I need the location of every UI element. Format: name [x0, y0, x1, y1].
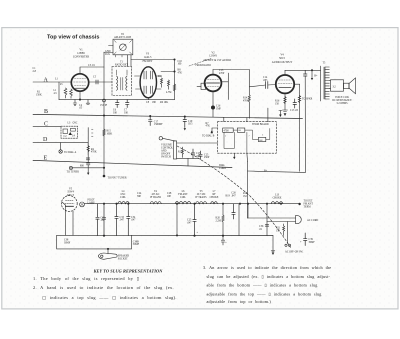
loop antenna coil: [120, 44, 127, 51]
resistor R14: [248, 87, 250, 119]
tube V4 electrodes: [278, 80, 292, 87]
speaker socket: [98, 253, 117, 259]
volume control shaft: [159, 137, 162, 140]
wire row D: [33, 142, 88, 144]
junction: [127, 203, 129, 205]
svg-text:TO DIAL B: TO DIAL B: [202, 135, 215, 138]
tube V3 electrodes: [144, 71, 153, 94]
loop lead down 2: [130, 55, 132, 67]
resistor R13 label: [178, 151, 183, 154]
capacitor C17 label: [290, 109, 299, 112]
speaker cone: [349, 78, 356, 94]
coil T3: [196, 202, 207, 204]
ground stub: [86, 100, 90, 105]
tube V3 label: [142, 53, 152, 63]
svg-text:.047: .047: [187, 221, 192, 224]
speaker socket lead: [107, 249, 109, 254]
wire loop right side: [130, 235, 132, 249]
coil L6: [175, 201, 191, 203]
wire dial to bus: [73, 167, 105, 169]
V5 cathode drop: [72, 211, 74, 235]
junction: [184, 116, 186, 118]
svg-text:50C5: 50C5: [279, 57, 286, 60]
tube V1 label: [73, 48, 90, 58]
svg-text:TO PIN 7 TUNER: TO PIN 7 TUNER: [108, 177, 127, 180]
tuner part 1: [223, 128, 234, 132]
capacitor C28 label: [167, 192, 172, 198]
svg-text:C15 .05: C15 .05: [290, 109, 299, 112]
loop terminals: [114, 41, 131, 54]
capacitor C26 label: [231, 192, 236, 198]
resistor R2: [64, 88, 67, 98]
board feed 1: [223, 117, 225, 121]
svg-text:AC OFF-ON SW.: AC OFF-ON SW.: [285, 250, 304, 253]
wire pot to tuner board: [177, 142, 218, 144]
tube V2 electrodes: [207, 80, 220, 87]
svg-text:CHOKE: CHOKE: [273, 197, 282, 200]
svg-text:30MF: 30MF: [309, 241, 316, 244]
wire transformer to speaker bottom: [329, 88, 330, 90]
resistor R20: [222, 204, 224, 236]
svg-text:470K: 470K: [91, 151, 97, 154]
resistor R12 label: [166, 91, 172, 94]
capacitor C3 label: [88, 64, 96, 67]
resistor R6 label: [160, 101, 168, 104]
resistor R17: [298, 96, 300, 103]
pin numbers: [225, 135, 263, 138]
svg-text:KEY TO SLUG REPRESENTATION: KEY TO SLUG REPRESENTATION: [93, 268, 164, 273]
capacitor C33: [115, 204, 118, 236]
wire lower rail: [57, 234, 273, 236]
tuner part 3: [258, 137, 265, 141]
wire heater rail: [85, 203, 300, 205]
capacitor C15: [304, 70, 308, 76]
tuning slash: [120, 44, 126, 50]
oscillator coil label: [68, 122, 78, 125]
svg-text:A: A: [44, 77, 49, 83]
resistor R15: [103, 129, 105, 136]
coil T4: [150, 202, 161, 204]
capacitor C25: [193, 204, 196, 236]
junction: [149, 115, 151, 117]
ground label: [105, 50, 111, 56]
loop lead down 1: [127, 55, 129, 67]
wire coupling drop: [248, 70, 250, 87]
capacitor C32: [102, 204, 105, 236]
junction: [115, 203, 117, 205]
svg-text:TERM: TERM: [304, 206, 312, 209]
wire cap to V4 grid: [268, 84, 276, 87]
tube V4: [276, 75, 294, 93]
wire row B bus: [33, 114, 303, 118]
terminal ring: [103, 99, 106, 102]
tube V2: [205, 75, 222, 92]
ground left of box: [211, 128, 218, 134]
loop bottom pins: [115, 55, 122, 57]
tube V4 label: [272, 54, 293, 64]
electrolytic C16 label: [216, 105, 222, 111]
svg-text:AM DET & 1ST AUDIO: AM DET & 1ST AUDIO: [203, 59, 231, 62]
svg-text:R13: R13: [178, 151, 183, 154]
voice coil label: [332, 96, 352, 105]
V3 pin bottom: [147, 98, 149, 100]
V2 grid stub: [197, 85, 201, 87]
board feed 3: [267, 108, 269, 122]
socket hole: [101, 255, 103, 257]
dashed pointer: [189, 59, 211, 67]
svg-text:B+: B+: [314, 75, 318, 78]
wire B+ drop to power: [247, 162, 249, 219]
trimmer 3: [71, 128, 76, 131]
coil L6 label: [178, 190, 188, 199]
dial pointer 2: [69, 166, 72, 169]
V2 grid resistor box: [201, 83, 206, 89]
coil L1 value label: [54, 89, 58, 95]
wire bypass drop: [304, 76, 306, 172]
coil L4: [118, 201, 130, 203]
V2 right pin: [221, 81, 228, 83]
tuner board box: [218, 122, 277, 154]
capacitor C25 label: [187, 219, 192, 225]
transformer T5 primary: [320, 66, 322, 101]
svg-text:30MF: 30MF: [133, 243, 140, 246]
capacitor C17 label: [154, 120, 163, 126]
resistor R21 label: [276, 227, 281, 233]
capacitor C5: [96, 80, 98, 84]
cap under R4: [86, 158, 89, 160]
ground below V1: [73, 100, 77, 106]
volume control link: [163, 138, 176, 141]
svg-text:COIL: COIL: [120, 196, 126, 199]
T1 slug arrows: [117, 70, 128, 75]
svg-text:TERM BOARD: TERM BOARD: [252, 123, 269, 126]
V4 cathode pin: [284, 93, 286, 110]
transformer T1 can: [112, 67, 132, 96]
V3 pin right top: [157, 75, 161, 77]
tube V5 label: [67, 188, 74, 197]
svg-text:7: 7: [249, 136, 250, 138]
svg-text:▢ indicates a top slug —— ▢: ▢ indicates a top slug —— ▢ indicates a …: [42, 295, 177, 300]
resistor R3: [70, 89, 73, 98]
svg-text:150K: 150K: [36, 94, 42, 97]
wire row E: [33, 160, 232, 167]
resistor R14 label: [243, 97, 249, 103]
pin ticks: [92, 130, 94, 137]
junction: [103, 167, 105, 169]
junction: [266, 203, 268, 205]
svg-text:100K: 100K: [107, 133, 113, 136]
svg-text:3. An arrow is used to indicat: 3. An arrow is used to indicate the dire…: [203, 265, 331, 270]
capacitor C10 label: [178, 60, 183, 66]
resistor R16 label: [275, 100, 280, 106]
svg-text:30MF: 30MF: [64, 242, 71, 245]
junction: [311, 69, 313, 71]
tube V1: [71, 74, 88, 91]
tube V5: [61, 196, 77, 212]
svg-text:2.2M: 2.2M: [216, 219, 222, 222]
junction: [193, 235, 195, 237]
svg-text:470P: 470P: [219, 72, 225, 75]
capacitor C7: [126, 100, 130, 108]
capacitor C25b label: [204, 153, 210, 159]
board pin lead 1: [233, 153, 235, 159]
board pin lead 2: [246, 153, 249, 161]
wire B+ branch: [248, 171, 306, 172]
antenna coil L1 label: [55, 78, 63, 87]
junction: [222, 235, 224, 237]
junction: [176, 203, 178, 205]
capacitor C27: [232, 204, 235, 219]
capacitor C6 label: [113, 109, 118, 115]
capacitor C36: [265, 224, 268, 226]
resistor R8 label: [178, 69, 183, 75]
capacitor C4 label: [79, 104, 83, 110]
trimmer 2 slug: [69, 132, 73, 135]
wire osc box drop: [87, 128, 89, 164]
junction: [222, 203, 224, 205]
svg-text:2: 2: [262, 135, 263, 137]
capacitor C33 label: [120, 216, 125, 222]
transformer T5 secondary comb: [325, 67, 329, 99]
V3 pin left top: [135, 75, 141, 77]
svg-text:560: 560: [238, 130, 241, 132]
V5 pin left: [62, 202, 65, 205]
wire loop left side: [56, 235, 58, 249]
svg-text:slug can be adjusted (ex. ▯ in: slug can be adjusted (ex. ▯ indicates a …: [207, 274, 331, 279]
resistor R16: [284, 97, 286, 104]
link label: [219, 164, 226, 170]
ground below V4: [283, 110, 288, 116]
svg-text:250P: 250P: [204, 156, 210, 159]
tube V1 plate pin: [80, 67, 104, 74]
svg-text:LUG: LUG: [105, 53, 110, 56]
capacitor C6: [116, 100, 120, 108]
resistor R7 label: [206, 122, 211, 128]
resistor R18 label: [243, 192, 248, 198]
wire drop 239: [238, 204, 240, 236]
capacitor C19: [183, 117, 186, 128]
pilot lamp label: [88, 199, 96, 205]
wire detector drop: [174, 60, 176, 100]
capacitor C13 label: [219, 69, 225, 75]
capacitor C38B label: [133, 240, 140, 246]
tube V3 envelope: [140, 67, 156, 98]
junction: [107, 248, 109, 250]
svg-text:C3 .01: C3 .01: [88, 64, 96, 67]
junction: [247, 203, 249, 205]
loop lead left: [104, 52, 113, 54]
svg-text:R11: R11: [158, 75, 163, 78]
svg-text:RECT: RECT: [67, 194, 74, 197]
wire long vertical to tuner: [103, 52, 105, 176]
trimmer 1: [63, 129, 68, 134]
tube V2 label: [203, 52, 231, 63]
terminal dot: [103, 175, 106, 178]
svg-text:AUDIO OUTPUT: AUDIO OUTPUT: [272, 61, 293, 64]
svg-text:12AL5: 12AL5: [144, 56, 152, 59]
socket label: [118, 255, 130, 261]
loop lead upper stub: [109, 45, 114, 47]
oscillator coil box: [61, 126, 78, 138]
coupling capacitor C13: [266, 82, 268, 89]
coil L7: [211, 202, 218, 204]
junction: [193, 203, 195, 205]
capacitor C39: [304, 233, 307, 246]
board feed 2: [246, 118, 248, 122]
junction: [79, 99, 81, 101]
wire ground return rail: [57, 248, 132, 250]
AC plug: [296, 216, 302, 224]
capacitor C17 under B: [149, 116, 153, 125]
loop antenna label: [114, 33, 132, 39]
capacitor C31: [96, 204, 99, 236]
ground arrow under C19: [184, 128, 186, 130]
margin note: [33, 67, 37, 73]
resistor R12: [168, 80, 170, 89]
capacitor C8 label: [146, 101, 157, 104]
tube V5 electrodes: [65, 201, 74, 207]
V2 plate pin: [212, 70, 214, 75]
mechanical link dashed: [177, 146, 291, 248]
svg-text:FM DET: FM DET: [142, 60, 152, 63]
wire V3 to drop: [161, 71, 175, 73]
svg-text:470K: 470K: [243, 99, 249, 102]
loop antenna box: [113, 39, 133, 55]
tuner wiring: [224, 129, 270, 154]
coil L13 label: [273, 194, 282, 200]
electrolytic C16: [211, 106, 215, 110]
speaker frame: [331, 80, 344, 91]
B+ takeoff arrow: [311, 70, 313, 80]
junction: [173, 58, 175, 60]
coil L7 label: [210, 190, 219, 199]
wire plate supply: [131, 59, 175, 61]
wire drop 267: [266, 204, 268, 236]
V2 cathode pin: [212, 91, 214, 116]
transformer T1 label: [115, 61, 129, 67]
svg-text:CHOKE: CHOKE: [210, 196, 219, 199]
svg-text:5: 5: [225, 136, 226, 138]
V3 pin left bottom: [136, 88, 141, 90]
svg-text:SOCKET: SOCKET: [118, 257, 128, 260]
svg-text:4700: 4700: [224, 130, 230, 133]
svg-text:4.7M: 4.7M: [166, 91, 172, 94]
capacitor C25b: [199, 151, 202, 160]
transformer T5 core: [323, 67, 325, 99]
svg-text:Top view of chassis: Top view of chassis: [47, 35, 100, 41]
junction: [239, 203, 241, 205]
svg-text:CONVERTER: CONVERTER: [73, 55, 90, 58]
wire dial stub: [60, 143, 62, 150]
svg-text:IF TRANS: IF TRANS: [150, 196, 162, 199]
capacitor C17: [293, 99, 297, 108]
capacitor C21: [87, 163, 90, 165]
wire A drop: [58, 82, 60, 100]
svg-text:1K5: 1K5: [188, 123, 193, 126]
switch contacts: [285, 244, 291, 246]
svg-text:OSC: OSC: [73, 122, 78, 125]
junction: [103, 203, 105, 205]
wire V5 left drop: [64, 205, 66, 235]
svg-text:47K: 47K: [178, 71, 183, 74]
resistor R1 label: [36, 91, 42, 97]
resistor R21: [283, 224, 285, 236]
junction: [103, 235, 105, 237]
wire plug drop: [287, 222, 289, 244]
terminal dot right: [298, 203, 300, 205]
ground right: [271, 236, 275, 255]
svg-text:SWITCH: SWITCH: [161, 156, 171, 159]
dial drive symbol: [59, 150, 62, 153]
V4 screen pin: [294, 83, 299, 85]
wire coupling to V4: [249, 85, 265, 87]
tube V1 internal electrodes: [74, 79, 87, 89]
junction: [103, 114, 105, 116]
wire row C: [33, 125, 61, 127]
svg-text:AC CORD: AC CORD: [307, 219, 318, 222]
resistor R4: [87, 143, 89, 155]
capacitor C19 label: [188, 120, 193, 126]
coil L4 label: [120, 190, 126, 199]
resistor R4 label: [91, 148, 97, 154]
svg-text:FROM RATIO: FROM RATIO: [196, 64, 212, 67]
T1 primary winding: [117, 76, 118, 90]
T1 core: [121, 78, 123, 91]
wire V1 to T1: [89, 81, 112, 83]
volume control body: [173, 141, 176, 159]
wire plate to coupling: [213, 69, 249, 71]
resistor R20 label: [216, 217, 222, 223]
junction: [280, 203, 282, 205]
svg-text:CORD: CORD: [219, 167, 226, 170]
V3 pin right bottom: [157, 88, 161, 90]
dial B arrow: [211, 131, 213, 134]
svg-text:TO TUNER: TO TUNER: [67, 170, 80, 173]
capacitor C23 label: [196, 152, 201, 158]
svg-text:COIL: COIL: [180, 196, 186, 199]
svg-text:.005: .005: [263, 79, 268, 82]
pilot lamp: [80, 202, 85, 207]
capacitor C34: [127, 204, 130, 236]
antenna stub above: [279, 111, 282, 118]
tuner part 2: [237, 128, 244, 132]
wire row A: [33, 81, 63, 83]
svg-text:RATIO DET: RATIO DET: [115, 64, 129, 67]
svg-text:1MF: 1MF: [216, 107, 222, 110]
resistor R11: [161, 78, 163, 87]
coil T4 label: [150, 190, 162, 199]
svg-text:1. The body of the slug is rep: 1. The body of the slug is represented b…: [33, 276, 139, 281]
wire screen drop: [299, 84, 301, 171]
svg-text:TO SPKR: TO SPKR: [302, 98, 313, 101]
T1 secondary winding: [126, 76, 127, 90]
tube V1 cathode lead: [79, 91, 81, 99]
capacitor C24 label: [137, 192, 142, 198]
resistor R13: [181, 147, 183, 157]
wire grid to A: [63, 81, 71, 83]
svg-text:.047: .047: [131, 219, 136, 222]
svg-text:R19: R19: [226, 195, 231, 198]
svg-text:R6 10K: R6 10K: [160, 101, 168, 104]
capacitor C13 value label: [263, 76, 268, 82]
junction: [176, 234, 178, 236]
resistor R11 label: [158, 75, 163, 78]
svg-text:1500MF: 1500MF: [154, 123, 163, 126]
junction: [173, 70, 175, 72]
tuner inner labels: [238, 130, 263, 142]
wire vol bottom rail: [177, 157, 199, 159]
svg-text:able from the bottom —— ▯ indi: able from the bottom —— ▯ indicates a bo…: [207, 283, 318, 288]
